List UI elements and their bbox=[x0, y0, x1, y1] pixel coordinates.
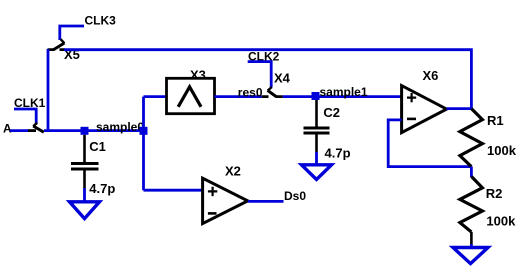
svg-text:C2: C2 bbox=[323, 105, 340, 120]
svg-text:sample1: sample1 bbox=[320, 85, 368, 99]
svg-text:X4: X4 bbox=[274, 71, 291, 86]
block X3 peak symbol bbox=[178, 87, 201, 107]
block X3 box bbox=[167, 78, 215, 113]
ground below R2 bbox=[453, 248, 488, 264]
op-amp X2 plus sign bbox=[208, 187, 217, 196]
switch X1 control tick bbox=[33, 123, 37, 126]
node sample0 junction square bbox=[81, 127, 89, 135]
svg-text:C1: C1 bbox=[89, 139, 106, 154]
wire top rail to right column bbox=[64, 50, 471, 109]
wire X3 output / res0 bbox=[215, 95, 262, 98]
svg-text:sample0: sample0 bbox=[96, 120, 144, 134]
switch X4 terminal stubs bbox=[262, 95, 283, 98]
switch X4 control tick bbox=[268, 87, 272, 91]
wire A input bbox=[10, 129, 29, 132]
switch X1 terminal stub bbox=[28, 129, 36, 132]
svg-text:100k: 100k bbox=[486, 214, 516, 229]
svg-text:4.7p: 4.7p bbox=[89, 181, 115, 196]
svg-text:X3: X3 bbox=[190, 68, 206, 83]
capacitor C1 plates bbox=[71, 164, 99, 170]
op-amp X6 minus sign bbox=[407, 118, 416, 121]
wire CLK3 stub bbox=[60, 26, 84, 40]
wire C2 to ground bbox=[315, 152, 318, 165]
capacitor C2 top lead bbox=[315, 100, 318, 127]
wire X3/X2 branch vertical bbox=[142, 97, 145, 191]
wire X2 output bbox=[248, 200, 284, 203]
wire X6 feedback loop bbox=[388, 120, 471, 167]
op-amp X6 triangle bbox=[402, 86, 447, 133]
switch X1 arm bbox=[33, 126, 44, 132]
svg-text:X6: X6 bbox=[423, 68, 439, 83]
node sample1 junction square bbox=[312, 92, 320, 100]
wire X3 input bbox=[144, 95, 167, 98]
ground below C2 bbox=[302, 165, 332, 180]
resistor R2 bottom lead bbox=[470, 232, 473, 244]
switch X5 terminal stubs bbox=[48, 48, 66, 51]
svg-text:100k: 100k bbox=[487, 143, 517, 158]
resistor R1 bbox=[460, 109, 483, 167]
svg-text:R2: R2 bbox=[486, 186, 503, 201]
op-amp X2 triangle bbox=[203, 178, 248, 223]
svg-text:X2: X2 bbox=[225, 163, 241, 178]
wire X5 branch vertical bbox=[47, 49, 50, 131]
svg-text:CLK3: CLK3 bbox=[85, 14, 117, 28]
switch X5 arm bbox=[53, 43, 64, 50]
wire CLK2 control bbox=[248, 62, 272, 88]
svg-text:A: A bbox=[3, 121, 12, 135]
svg-text:R1: R1 bbox=[487, 113, 504, 128]
switch X4 arm bbox=[268, 90, 276, 96]
capacitor C1 bottom lead bbox=[83, 170, 86, 188]
wire CLK1 control bbox=[14, 109, 36, 123]
wire A to junctions bbox=[44, 129, 144, 132]
resistor R2 bbox=[460, 177, 483, 233]
wire R1 to R2 bbox=[470, 167, 473, 177]
wire X4 to X6 plus input bbox=[283, 95, 402, 98]
wire X2 plus input bbox=[144, 189, 203, 192]
wire C1 to ground bbox=[83, 188, 86, 202]
wire R2 to ground bbox=[470, 244, 473, 249]
capacitor C2 bottom lead bbox=[315, 135, 318, 153]
ground below C1 bbox=[70, 202, 100, 219]
svg-text:res0: res0 bbox=[238, 86, 263, 100]
op-amp X6 plus sign bbox=[407, 93, 416, 102]
wire X6 output bbox=[447, 107, 472, 110]
switch X5 control tick bbox=[61, 39, 65, 43]
svg-text:4.7p: 4.7p bbox=[325, 146, 351, 161]
node junction at X3 branch bbox=[140, 127, 148, 135]
op-amp X2 minus sign bbox=[208, 212, 217, 215]
capacitor C1 top lead bbox=[83, 135, 86, 163]
svg-text:Ds0: Ds0 bbox=[284, 189, 306, 203]
capacitor C2 plates bbox=[304, 128, 330, 133]
